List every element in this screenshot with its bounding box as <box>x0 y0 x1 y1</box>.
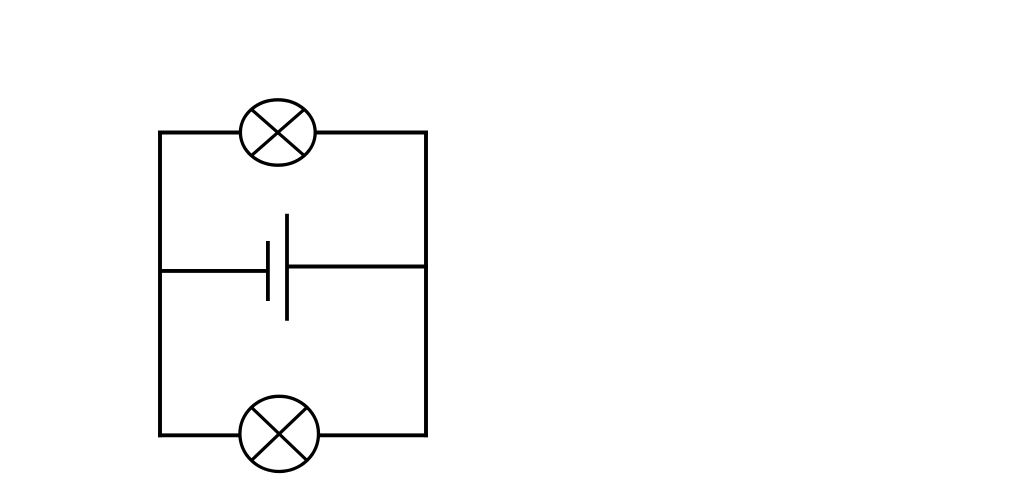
wire: left vertical rail <box>158 131 162 438</box>
wire: middle left segment to battery negative plate <box>159 269 269 273</box>
lamp L2 (bottom) <box>240 396 319 471</box>
wire: right vertical rail <box>424 131 428 437</box>
lamp L1 (top) <box>240 100 315 165</box>
wire: bottom horizontal conductor <box>158 433 428 437</box>
wire: middle right segment from battery positive plate <box>287 265 428 269</box>
battery cell B1 <box>268 214 287 321</box>
battery positive plate (long) <box>285 214 289 321</box>
battery negative plate (short) <box>266 241 270 301</box>
wire: top horizontal conductor <box>158 131 428 135</box>
